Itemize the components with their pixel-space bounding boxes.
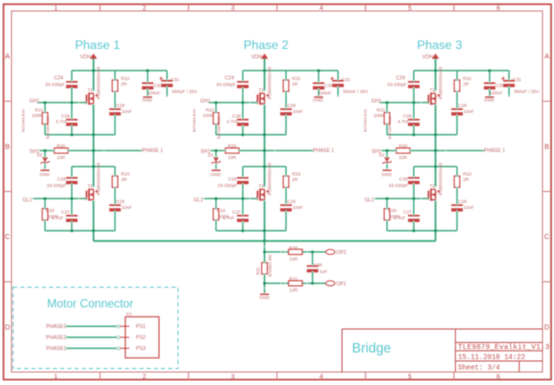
svg-text:15.11.2010 14:22: 15.11.2010 14:22 xyxy=(458,354,525,362)
svg-text:GL1: GL1 xyxy=(23,198,33,204)
svg-text:2R: 2R xyxy=(121,81,128,86)
svg-text:100K: 100K xyxy=(32,113,44,118)
svg-text:B: B xyxy=(544,144,549,151)
svg-text:5: 5 xyxy=(408,5,412,12)
svg-text:R20: R20 xyxy=(57,144,66,149)
svg-text:Motor Connector: Motor Connector xyxy=(47,298,133,311)
svg-text:4.7nF: 4.7nF xyxy=(56,119,68,124)
svg-text:2R: 2R xyxy=(121,177,128,182)
svg-text:PS2: PS2 xyxy=(136,335,146,341)
svg-text:4: 4 xyxy=(319,373,323,380)
svg-text:D2: D2 xyxy=(37,153,43,158)
svg-text:C: C xyxy=(5,234,10,241)
svg-text:R31: R31 xyxy=(289,277,298,282)
svg-text:GND: GND xyxy=(259,295,270,300)
svg-text:OP1: OP1 xyxy=(336,282,346,288)
svg-text:C: C xyxy=(544,234,549,241)
svg-text:10nF: 10nF xyxy=(122,205,133,210)
svg-text:IPD90N04S04-05: IPD90N04S04-05 xyxy=(96,66,101,99)
svg-text:Bridge: Bridge xyxy=(352,341,391,356)
svg-text:OP2: OP2 xyxy=(336,250,346,256)
svg-text:1: 1 xyxy=(54,373,58,380)
svg-text:1: 1 xyxy=(54,5,58,12)
svg-text:A: A xyxy=(544,54,549,61)
svg-text:BZX384-B10: BZX384-B10 xyxy=(45,115,50,139)
svg-text:C28: C28 xyxy=(57,176,66,181)
svg-text:2: 2 xyxy=(142,373,146,380)
svg-text:PS3: PS3 xyxy=(136,346,146,352)
svg-text:Sheet: 3/4: Sheet: 3/4 xyxy=(458,364,500,372)
svg-text:R23: R23 xyxy=(121,172,130,177)
svg-text:2: 2 xyxy=(142,5,146,12)
svg-text:5: 5 xyxy=(408,373,412,380)
svg-text:C31: C31 xyxy=(171,77,180,82)
svg-text:R22: R22 xyxy=(121,76,130,81)
svg-text:Phase 1: Phase 1 xyxy=(75,38,120,52)
svg-text:BZX384-B10: BZX384-B10 xyxy=(21,108,26,132)
svg-text:C38: C38 xyxy=(314,263,323,268)
svg-text:PHASE2: PHASE2 xyxy=(46,335,67,341)
svg-text:D: D xyxy=(5,324,10,331)
svg-text:R19: R19 xyxy=(46,208,55,213)
svg-text:C27: C27 xyxy=(61,210,70,215)
svg-text:C26: C26 xyxy=(61,114,70,119)
svg-text:GND: GND xyxy=(40,172,51,177)
svg-text:10R: 10R xyxy=(57,155,66,160)
svg-text:100nF: 100nF xyxy=(148,90,161,95)
svg-text:Phase 3: Phase 3 xyxy=(417,38,462,52)
svg-text:C29: C29 xyxy=(116,103,125,108)
svg-text:C24: C24 xyxy=(54,76,63,82)
svg-text:D: D xyxy=(544,324,549,331)
svg-text:3: 3 xyxy=(231,5,235,12)
svg-text:T1: T1 xyxy=(88,88,94,93)
svg-text:560uF / 25V: 560uF / 25V xyxy=(172,89,198,94)
svg-text:PHASE 1: PHASE 1 xyxy=(142,148,163,154)
svg-text:T2: T2 xyxy=(88,184,94,189)
svg-text:12R: 12R xyxy=(289,288,298,293)
svg-text:3: 3 xyxy=(231,373,235,380)
svg-text:R21: R21 xyxy=(35,107,44,112)
svg-text:IPD90N04S04-05: IPD90N04S04-05 xyxy=(96,162,101,195)
svg-text:4.7nF: 4.7nF xyxy=(52,215,64,220)
svg-text:1uF: 1uF xyxy=(320,269,328,274)
svg-text:12R: 12R xyxy=(289,256,298,261)
svg-text:10nF: 10nF xyxy=(122,109,133,114)
svg-text:PHASE1: PHASE1 xyxy=(46,346,67,352)
svg-text:TLE9879_Evalkit_V1.3: TLE9879_Evalkit_V1.3 xyxy=(458,344,550,352)
svg-text:PHASE3: PHASE3 xyxy=(46,324,67,330)
svg-text:C30: C30 xyxy=(154,83,163,88)
svg-text:5mOhm 3W: 5mOhm 3W xyxy=(268,255,273,277)
svg-text:R30: R30 xyxy=(289,245,298,250)
svg-text:B: B xyxy=(5,144,10,151)
svg-text:Phase 2: Phase 2 xyxy=(243,38,288,52)
svg-text:PS1: PS1 xyxy=(136,324,146,330)
svg-text:A: A xyxy=(5,54,10,61)
svg-text:33-330pF: 33-330pF xyxy=(47,183,67,188)
svg-text:GND: GND xyxy=(142,98,153,103)
svg-text:R32: R32 xyxy=(256,267,261,275)
svg-text:6: 6 xyxy=(496,5,500,12)
svg-text:33-330pF: 33-330pF xyxy=(45,82,65,87)
svg-text:6: 6 xyxy=(496,373,500,380)
svg-text:VDH: VDH xyxy=(80,54,91,60)
svg-text:4: 4 xyxy=(319,5,323,12)
svg-text:GH1: GH1 xyxy=(29,98,40,104)
svg-text:X1: X1 xyxy=(126,312,132,317)
svg-text:C25: C25 xyxy=(116,199,125,204)
